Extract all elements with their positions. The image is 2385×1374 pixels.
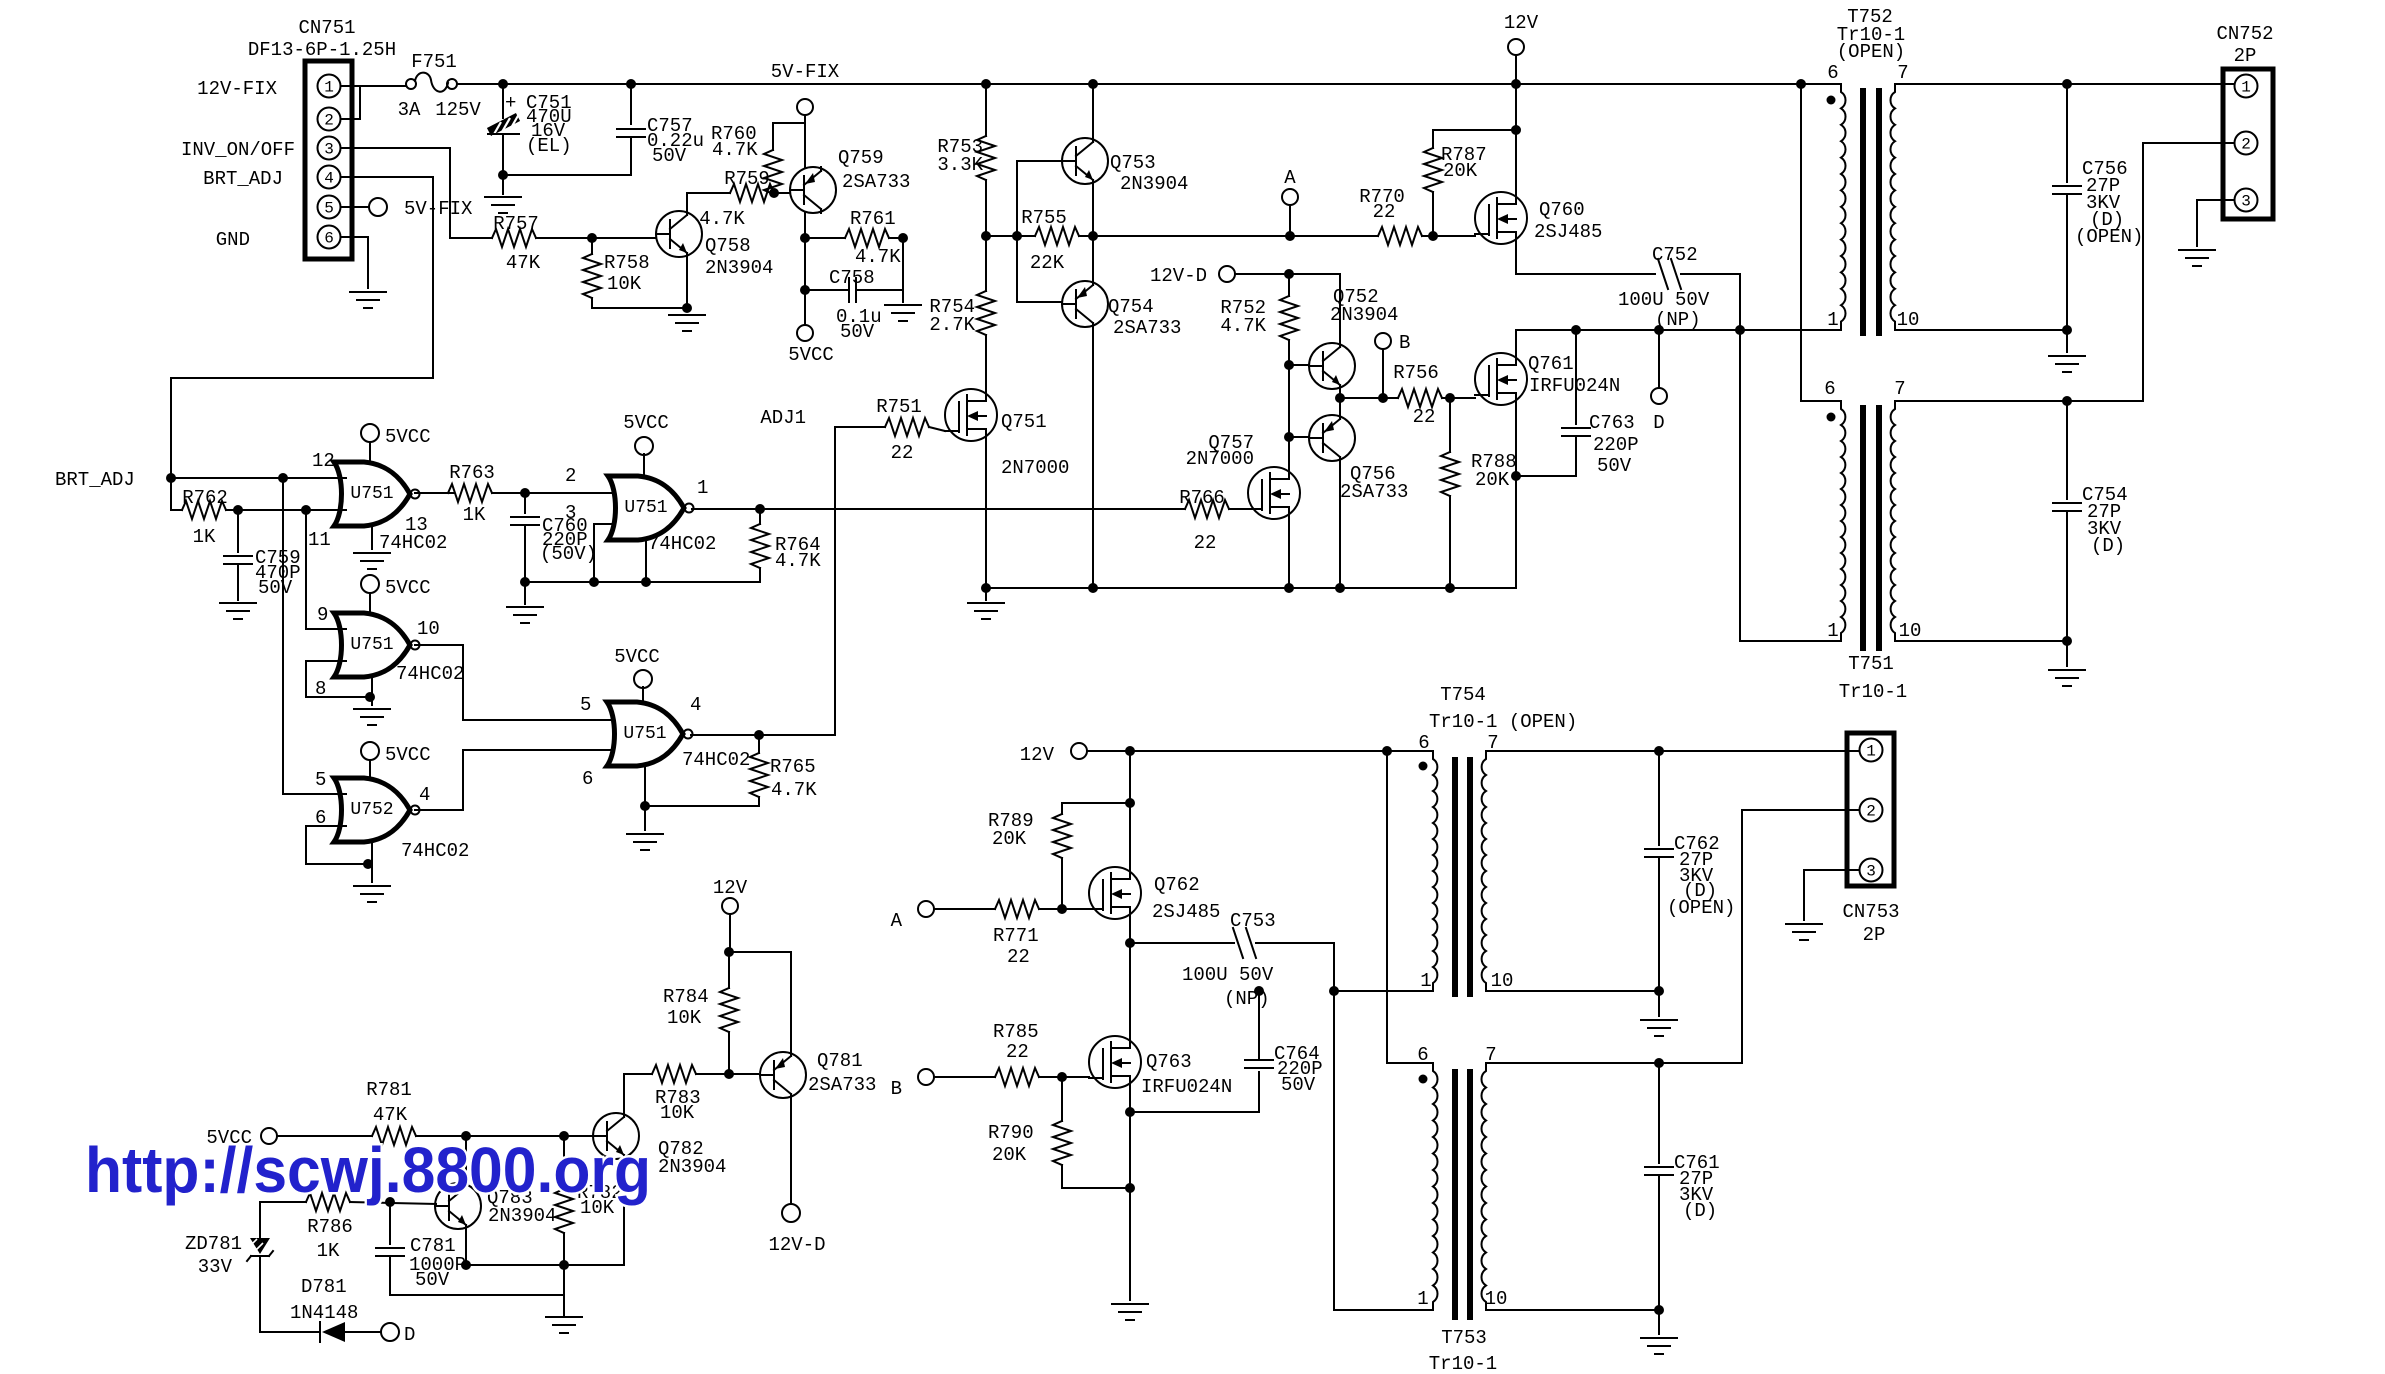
transformer T754 primary <box>1433 751 1437 991</box>
svg-text:3: 3 <box>565 502 576 524</box>
svg-text:U751: U751 <box>624 498 667 518</box>
svg-text:U751: U751 <box>350 484 393 504</box>
wire Q782 collector <box>623 1074 625 1113</box>
resistor R770 <box>1378 227 1422 245</box>
wire <box>1575 330 1577 424</box>
svg-text:5VCC: 5VCC <box>788 344 834 366</box>
wire R782 bottom <box>563 1233 565 1295</box>
svg-text:2.7K: 2.7K <box>929 314 975 336</box>
svg-text:2N3904: 2N3904 <box>705 257 773 279</box>
resistor R782 <box>555 1189 573 1233</box>
junction <box>981 583 991 593</box>
resistor R760 <box>764 150 782 194</box>
node 12V-D <box>1219 266 1235 282</box>
junction <box>1571 325 1581 335</box>
junction <box>1057 904 1067 914</box>
svg-text:1K: 1K <box>193 526 216 548</box>
svg-text:3.3K: 3.3K <box>937 154 983 176</box>
svg-text:B: B <box>1399 332 1410 354</box>
diode D781 <box>320 1322 345 1342</box>
ground gate A <box>354 553 390 569</box>
wire <box>1449 398 1451 452</box>
svg-text:5: 5 <box>324 200 334 218</box>
svg-text:20K: 20K <box>1475 469 1510 491</box>
junction <box>461 1131 471 1141</box>
node 5VCC gateC <box>635 437 653 455</box>
wire <box>1658 1310 1660 1334</box>
wire Q760 drain <box>1516 244 1655 274</box>
svg-text:2N7000: 2N7000 <box>1186 448 1254 470</box>
wire R763 to pin2 <box>492 492 620 494</box>
svg-text:BRT_ADJ: BRT_ADJ <box>55 469 135 491</box>
wire <box>729 914 731 952</box>
junction <box>1088 79 1098 89</box>
junction <box>1284 432 1294 442</box>
transistor Q758 <box>656 211 702 257</box>
capacitor C764 <box>1245 1060 1273 1068</box>
wire C762 top <box>1658 751 1660 845</box>
connector CN752 <box>2223 69 2273 219</box>
resistor R789 <box>1053 814 1071 858</box>
svg-text:47K: 47K <box>506 252 541 274</box>
junction <box>724 947 734 957</box>
wire <box>369 760 371 778</box>
capacitor C751 <box>488 114 519 136</box>
wire <box>341 206 369 208</box>
transformer T751 secondary <box>1891 401 1895 641</box>
svg-text:R771: R771 <box>993 925 1039 947</box>
wire <box>1515 55 1517 84</box>
junction <box>1057 1072 1067 1082</box>
svg-text:22: 22 <box>1194 532 1217 554</box>
resistor R788 <box>1441 452 1459 496</box>
wire to C753 <box>1130 942 1234 944</box>
svg-text:12V-D: 12V-D <box>1150 265 1207 287</box>
capacitor C757 <box>617 129 645 137</box>
wire Q756 base <box>1289 436 1309 438</box>
svg-text:CN751: CN751 <box>298 17 355 39</box>
wire R787 bottom <box>1432 192 1434 236</box>
wire <box>1658 991 1660 1016</box>
junction <box>1511 471 1521 481</box>
wire zener to diode <box>260 1256 319 1332</box>
svg-text:1: 1 <box>1827 620 1838 642</box>
svg-text:7: 7 <box>1897 62 1908 84</box>
resistor R752 <box>1280 296 1298 340</box>
wire <box>774 192 790 194</box>
junction <box>559 1260 569 1270</box>
wire R789 bottom <box>1061 858 1063 909</box>
junction <box>1088 231 1098 241</box>
transistor Q752 <box>1309 343 1355 389</box>
wire CN753 pin3 <box>1804 869 1859 871</box>
svg-text:R751: R751 <box>876 396 922 418</box>
junction <box>755 504 765 514</box>
transistor Q781 <box>760 1052 806 1098</box>
svg-text:220P: 220P <box>1593 434 1639 456</box>
junction <box>498 170 508 180</box>
wire U752 out to U751D pin6 <box>415 750 619 810</box>
junction <box>1445 393 1455 403</box>
svg-text:22: 22 <box>1006 1041 1029 1063</box>
transistor Q761 <box>1475 353 1527 405</box>
transistor Q757 <box>1248 467 1300 519</box>
wire C762 bottom <box>1658 859 1660 991</box>
transformer T751 primary <box>1841 401 1845 641</box>
svg-text:2P: 2P <box>2234 45 2257 67</box>
junction <box>1088 583 1098 593</box>
wire pin3 tie <box>594 524 620 582</box>
junction <box>724 1069 734 1079</box>
wire <box>502 84 504 118</box>
svg-text:GND: GND <box>216 229 250 251</box>
svg-text:22: 22 <box>1373 201 1396 223</box>
transformer T751 core <box>1863 405 1879 651</box>
resistor R766 <box>1185 500 1229 518</box>
transformer T753 secondary <box>1481 1063 1486 1310</box>
junction <box>278 473 288 483</box>
wire T753 pin7 row <box>1486 1062 1742 1064</box>
wire R786 to Q783 base <box>350 1202 436 1204</box>
svg-text:D781: D781 <box>301 1276 347 1298</box>
svg-text:2P: 2P <box>1863 924 1886 946</box>
svg-text:3: 3 <box>2241 193 2251 211</box>
svg-text:5VCC: 5VCC <box>385 426 431 448</box>
svg-text:10: 10 <box>417 618 440 640</box>
wire <box>1803 870 1805 920</box>
svg-text:2: 2 <box>2241 136 2251 154</box>
wire <box>260 1201 306 1203</box>
junction <box>626 79 636 89</box>
svg-text:22: 22 <box>1007 946 1030 968</box>
wire T753 pin1 row <box>1334 1309 1433 1311</box>
node 5VCC terminal Q759 <box>797 325 813 341</box>
wire T754 pin10 row <box>1486 990 1659 992</box>
wire U751A output <box>415 492 454 494</box>
svg-text:5VCC: 5VCC <box>385 577 431 599</box>
svg-text:DF13-6P-1.25H: DF13-6P-1.25H <box>248 39 396 61</box>
svg-text:1: 1 <box>2241 79 2251 97</box>
wire R784 bottom <box>728 1032 730 1074</box>
junction <box>1012 231 1022 241</box>
zener ZD781 <box>247 1238 273 1261</box>
wire <box>1658 330 1660 388</box>
svg-text:A: A <box>1284 167 1296 189</box>
transistor Q754 <box>1062 281 1108 327</box>
svg-text:C758: C758 <box>829 267 875 289</box>
junction <box>1335 393 1345 403</box>
svg-text:5: 5 <box>580 694 591 716</box>
wire Q758 emitter <box>686 257 688 308</box>
wire rail to T751 pin6 <box>1801 84 1841 401</box>
svg-text:6: 6 <box>1824 378 1835 400</box>
ground CN752 pin3 <box>2179 250 2215 266</box>
junction <box>1125 1107 1135 1117</box>
wire C764 top <box>1258 991 1260 1058</box>
svg-text:6: 6 <box>1827 62 1838 84</box>
junction <box>2062 396 2072 406</box>
junction <box>1285 231 1295 241</box>
wire <box>759 509 761 524</box>
wire Q762 drain to Q763 <box>1129 919 1131 1036</box>
svg-text:Q763: Q763 <box>1146 1051 1192 1073</box>
svg-text:B: B <box>891 1078 902 1100</box>
resistor R761 <box>845 229 889 247</box>
ground C762 <box>1641 1020 1677 1036</box>
wire rail to CN752 <box>1895 83 2234 85</box>
svg-text:T754: T754 <box>1440 684 1486 706</box>
wire <box>277 1135 372 1137</box>
svg-text:10K: 10K <box>667 1007 702 1029</box>
svg-text:1: 1 <box>324 79 334 97</box>
wire <box>1039 908 1089 910</box>
svg-text:10: 10 <box>1899 620 1922 642</box>
junction <box>520 488 530 498</box>
svg-text:5VCC: 5VCC <box>614 646 660 668</box>
transformer T753 primary <box>1433 1063 1438 1310</box>
svg-text:1K: 1K <box>317 1240 340 1262</box>
wire <box>804 238 806 290</box>
svg-text:50V: 50V <box>652 145 687 167</box>
svg-text:ADJ1: ADJ1 <box>760 407 806 429</box>
svg-text:10K: 10K <box>660 1102 695 1124</box>
wire pin8 tie <box>306 661 370 697</box>
wire <box>804 290 806 325</box>
wire <box>624 1073 652 1075</box>
capacitor C752 <box>1658 259 1681 289</box>
svg-text:Tr10-1 (OPEN): Tr10-1 (OPEN) <box>1429 711 1577 733</box>
svg-text:10: 10 <box>1897 309 1920 331</box>
svg-text:33V: 33V <box>198 1256 233 1278</box>
svg-text:Q762: Q762 <box>1154 874 1200 896</box>
capacitor C759 <box>224 556 252 564</box>
svg-text:50V: 50V <box>840 321 875 343</box>
junction <box>2062 79 2072 89</box>
svg-text:Q758: Q758 <box>705 235 751 257</box>
resistor R756 <box>1398 389 1442 407</box>
svg-text:ZD781: ZD781 <box>185 1233 242 1255</box>
svg-text:4.7K: 4.7K <box>855 246 901 268</box>
node 12V-D bottom <box>782 1204 800 1222</box>
junction <box>1428 231 1438 241</box>
wire C761 top <box>1658 1063 1660 1163</box>
resistor R785 <box>995 1068 1039 1086</box>
wire C764 bottom <box>1130 1072 1259 1112</box>
wire INV_ON/OFF <box>341 148 492 238</box>
wire T752 pin1 row <box>1516 330 1841 353</box>
transformer T752 core <box>1863 88 1879 336</box>
transformer T753 core <box>1455 1069 1470 1320</box>
junction <box>385 1197 395 1207</box>
svg-text:(OPEN): (OPEN) <box>1667 897 1735 919</box>
wire C781 bottom <box>389 1258 391 1295</box>
wire <box>1289 205 1291 236</box>
junction <box>800 233 810 243</box>
wire C761 bottom <box>1658 1177 1660 1310</box>
transistor Q756 <box>1309 415 1355 461</box>
wire C754 top <box>2066 401 2068 499</box>
svg-text:4.7K: 4.7K <box>1220 315 1266 337</box>
junction <box>1125 938 1135 948</box>
wire 12V row bottom <box>1087 750 1433 752</box>
svg-text:1: 1 <box>1417 1288 1428 1310</box>
wire CN752 pin3 <box>2197 199 2234 201</box>
svg-text:C763: C763 <box>1589 412 1635 434</box>
capacitor C763 <box>1562 428 1590 436</box>
svg-text:R785: R785 <box>993 1021 1039 1043</box>
wire <box>503 174 631 176</box>
capacitor C756 <box>2053 186 2081 194</box>
junction <box>498 79 508 89</box>
svg-text:50V: 50V <box>1597 455 1632 477</box>
resistor R784 <box>720 988 738 1032</box>
svg-text:Q759: Q759 <box>838 147 884 169</box>
svg-text:http://scwj.8800.org: http://scwj.8800.org <box>85 1134 651 1206</box>
wire 12V-D to Q752 <box>1235 274 1340 343</box>
resistor R790 <box>1053 1121 1071 1165</box>
svg-text:A: A <box>891 910 903 932</box>
wire to R762 <box>171 478 182 510</box>
wire <box>630 84 632 124</box>
node A bottom <box>918 901 934 917</box>
wire <box>759 568 761 582</box>
transistor Q753 <box>1062 138 1108 184</box>
junction <box>1335 583 1345 593</box>
wire <box>835 426 885 428</box>
svg-text:74HC02: 74HC02 <box>682 749 750 771</box>
wire Q756 collector to bus <box>1339 461 1341 588</box>
capacitor C758 <box>849 278 856 302</box>
svg-text:4.7K: 4.7K <box>699 208 745 230</box>
junction <box>682 303 692 313</box>
wire R760 top <box>773 123 805 150</box>
wire Q754 collector to bus <box>1092 327 1094 588</box>
svg-text:13: 13 <box>405 514 428 536</box>
svg-text:(OPEN): (OPEN) <box>2075 226 2143 248</box>
ground T751 secondary <box>2049 670 2085 686</box>
node 12V bottom <box>1071 743 1087 759</box>
svg-text:IRFU024N: IRFU024N <box>1529 375 1620 397</box>
wire C781 top <box>389 1202 391 1244</box>
svg-text:2N3904: 2N3904 <box>488 1205 556 1227</box>
svg-text:5V-FIX: 5V-FIX <box>404 198 473 220</box>
resistor R754 <box>977 291 995 335</box>
connector CN751 <box>305 61 352 259</box>
gate U751C <box>608 476 694 540</box>
wire Q783 collector <box>465 1136 467 1183</box>
node 12V top <box>1508 39 1524 55</box>
junction <box>1511 79 1521 89</box>
junction <box>1284 583 1294 593</box>
svg-text:Q753: Q753 <box>1110 152 1156 174</box>
transistor Q759 <box>790 167 836 213</box>
wire <box>642 687 644 702</box>
transistor Q782 <box>593 1113 639 1159</box>
wire <box>341 237 368 288</box>
junction <box>559 1131 569 1141</box>
wire U751B out to U751D pin5 <box>415 645 619 720</box>
wire R765 bottom <box>645 797 759 806</box>
svg-text:2N3904: 2N3904 <box>1120 173 1188 195</box>
svg-text:1K: 1K <box>463 504 486 526</box>
wire 12V to Q781 emitter <box>729 952 791 1050</box>
wire <box>934 1076 995 1078</box>
svg-text:(EL): (EL) <box>526 135 572 157</box>
ground C751 <box>485 197 521 213</box>
svg-text:5V-FIX: 5V-FIX <box>771 61 840 83</box>
svg-text:74HC02: 74HC02 <box>648 533 716 555</box>
wire <box>645 540 647 582</box>
svg-text:R756: R756 <box>1393 362 1439 384</box>
wire pin11 to pin9 <box>306 510 346 629</box>
wire BRT_ADJ to pin12 <box>171 477 346 479</box>
capacitor C762 <box>1645 849 1673 857</box>
svg-text:U751: U751 <box>623 724 666 744</box>
wire <box>929 427 945 431</box>
junction <box>1329 986 1339 996</box>
wire B row <box>1340 397 1398 399</box>
junction <box>166 473 176 483</box>
wire Q752 base <box>1289 364 1309 366</box>
junction <box>981 231 991 241</box>
wire Q753 base <box>1017 160 1062 162</box>
transistor Q783 <box>435 1183 481 1229</box>
svg-text:12: 12 <box>312 450 335 472</box>
svg-text:R762: R762 <box>182 487 228 509</box>
svg-text:R790: R790 <box>988 1122 1034 1144</box>
svg-text:1: 1 <box>697 477 708 499</box>
svg-text:20K: 20K <box>992 828 1027 850</box>
wire BRT_ADJ <box>171 177 433 478</box>
svg-text:IRFU024N: IRFU024N <box>1141 1076 1232 1098</box>
junction <box>754 730 764 740</box>
junction <box>1511 125 1521 135</box>
junction <box>1654 986 1664 996</box>
ground Q758 emitter <box>669 315 705 331</box>
wire <box>341 86 360 119</box>
wire Q752 emitter <box>1339 389 1341 398</box>
junction <box>587 233 597 243</box>
junction <box>898 233 908 243</box>
wire R762 to pin11 <box>226 509 346 511</box>
junction <box>1654 746 1664 756</box>
svg-text:125V: 125V <box>435 99 481 121</box>
ground CN753 pin3 <box>1786 924 1822 940</box>
transistor Q751 <box>945 389 997 441</box>
wire <box>805 289 849 291</box>
junction <box>301 505 311 515</box>
resistor R783 <box>652 1065 696 1083</box>
wire R790 top <box>1061 1077 1063 1121</box>
wire <box>985 588 987 600</box>
node 5VCC gateD <box>361 742 379 760</box>
resistor R786 <box>306 1193 350 1211</box>
node B <box>1375 333 1391 349</box>
svg-text:6: 6 <box>1418 732 1429 754</box>
wire <box>237 566 239 600</box>
transistor Q762 <box>1089 867 1141 919</box>
wire T751 pin10 <box>1895 640 2067 642</box>
junction <box>365 692 375 702</box>
svg-text:50V: 50V <box>258 577 293 599</box>
resistor R771 <box>995 900 1039 918</box>
svg-text:3A: 3A <box>398 99 421 121</box>
wire <box>2066 641 2068 666</box>
svg-text:(D): (D) <box>1683 1200 1717 1222</box>
wire C752 out <box>1681 274 1740 330</box>
gate U751A <box>334 462 420 526</box>
svg-text:R784: R784 <box>663 986 709 1008</box>
